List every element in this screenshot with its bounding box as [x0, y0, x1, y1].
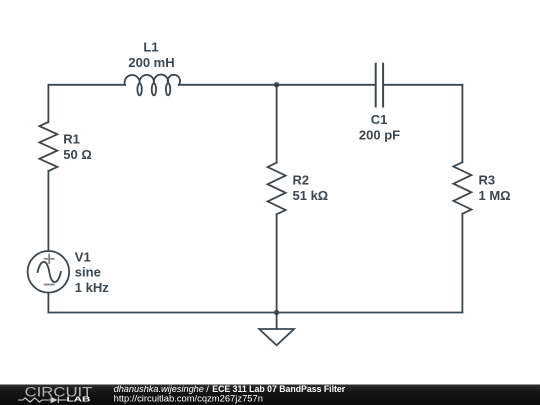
svg-text:R3: R3	[479, 173, 496, 188]
svg-text:V1: V1	[75, 249, 91, 264]
svg-text:L1: L1	[143, 40, 158, 55]
svg-text:51 kΩ: 51 kΩ	[293, 188, 329, 203]
svg-text:200 mH: 200 mH	[128, 55, 174, 70]
svg-text:LAB: LAB	[67, 395, 91, 404]
svg-text:1 MΩ: 1 MΩ	[479, 188, 511, 203]
svg-text:R2: R2	[293, 173, 310, 188]
svg-text:50 Ω: 50 Ω	[63, 147, 92, 162]
svg-text:http://circuitlab.com/cqzm267j: http://circuitlab.com/cqzm267jz757n	[114, 393, 263, 404]
svg-text:R1: R1	[63, 132, 80, 147]
svg-text:200 pF: 200 pF	[359, 128, 400, 143]
svg-text:sine: sine	[75, 265, 101, 280]
svg-text:C1: C1	[371, 112, 388, 127]
svg-text:1 kHz: 1 kHz	[75, 280, 109, 295]
